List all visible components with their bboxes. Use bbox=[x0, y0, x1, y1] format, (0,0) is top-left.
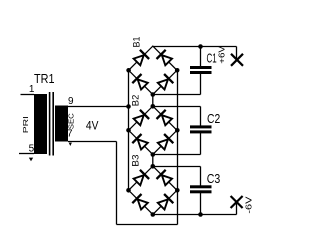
svg-text:9: 9 bbox=[68, 96, 74, 107]
diode B2 D-lower-right bbox=[158, 134, 174, 150]
diode B1 D-upper-left bbox=[134, 50, 150, 66]
diode B2 D-lower-left bbox=[132, 134, 148, 150]
wire B1- horizontal bbox=[153, 94, 201, 96]
TR1 pin 1 stub wire bbox=[21, 94, 35, 96]
pin 5 arrow marker bbox=[29, 158, 33, 162]
diode B3 D-lower-left bbox=[132, 194, 148, 210]
bridge rectifier B2 body bbox=[129, 106, 177, 154]
svg-text:B3: B3 bbox=[131, 155, 141, 167]
wire B2+ horizontal bbox=[153, 106, 201, 108]
svg-text:C1: C1 bbox=[207, 51, 217, 65]
capacitor C3 bbox=[190, 185, 212, 193]
left AC bus vertical bbox=[128, 70, 130, 190]
junction B3 minus node bbox=[151, 212, 156, 217]
wire -6V terminal rise bbox=[236, 202, 238, 215]
wire B2- horizontal bbox=[153, 154, 201, 156]
svg-text:C2: C2 bbox=[207, 112, 220, 126]
TR1 pin 5 stub wire bbox=[19, 153, 34, 155]
wire pin 9 to left AC bus bbox=[68, 106, 129, 108]
transformer TR1 secondary winding bbox=[55, 106, 68, 142]
svg-text:SEC: SEC bbox=[67, 113, 76, 129]
svg-text:+6V: +6V bbox=[217, 46, 227, 64]
svg-text:TR1: TR1 bbox=[34, 72, 55, 86]
diode B3 D-upper-right bbox=[157, 170, 173, 186]
wire bottom AC return bbox=[117, 224, 178, 226]
junction B1 left AC node bbox=[126, 68, 131, 73]
C3 bottom lead bbox=[200, 193, 202, 215]
transformer core line left bbox=[49, 92, 51, 156]
diode B3 D-lower-right bbox=[158, 194, 174, 210]
capacitor C1 bbox=[190, 66, 212, 74]
C2 top lead bbox=[200, 107, 202, 126]
junction pin 9 bus node bbox=[126, 104, 131, 109]
wire +6V terminal drop bbox=[236, 47, 238, 60]
svg-text:4V: 4V bbox=[86, 119, 99, 133]
diode B1 D-upper-right bbox=[157, 50, 173, 66]
junction B2 plus node bbox=[151, 104, 156, 109]
wire B2- to B3+ link bbox=[152, 155, 154, 167]
junction B3 plus node bbox=[151, 164, 156, 169]
junction B2 minus node bbox=[151, 152, 156, 157]
diode B1 D-lower-left bbox=[132, 74, 148, 90]
junction B3 left AC node bbox=[126, 188, 131, 193]
capacitor C2 bbox=[190, 125, 212, 133]
junction C3 bottom node bbox=[198, 212, 203, 217]
svg-text:1: 1 bbox=[29, 84, 35, 95]
transformer TR1 primary winding bbox=[34, 94, 47, 154]
C2 bottom lead bbox=[200, 133, 202, 155]
wire B3+ horizontal bbox=[153, 166, 201, 168]
pin 7 arrow marker bbox=[69, 143, 72, 146]
svg-text:B1: B1 bbox=[132, 37, 142, 48]
svg-text:B2: B2 bbox=[130, 95, 140, 107]
junction C1 top node bbox=[198, 44, 203, 49]
svg-text:PRI: PRI bbox=[21, 116, 30, 133]
C3 top lead bbox=[200, 167, 202, 186]
svg-text:C3: C3 bbox=[207, 172, 221, 186]
right AC bus vertical bbox=[177, 70, 179, 224]
bridge rectifier B1 body bbox=[129, 46, 177, 94]
wire B3- to -6V terminal bbox=[153, 214, 237, 216]
junction B1 minus node bbox=[151, 92, 156, 97]
svg-text:7: 7 bbox=[67, 129, 73, 140]
wire B1- to B2+ link bbox=[152, 95, 154, 107]
svg-text:-6V: -6V bbox=[243, 196, 253, 214]
wire B1+ to +6V terminal bbox=[153, 46, 237, 48]
diode B2 D-upper-left bbox=[134, 110, 150, 126]
wire pin 7 horizontal bbox=[68, 141, 117, 143]
diode B1 D-lower-right bbox=[158, 74, 174, 90]
diode B3 D-upper-left bbox=[134, 170, 150, 186]
junction B3 right AC node bbox=[175, 188, 180, 193]
terminal X +6V bbox=[231, 54, 243, 66]
C1 top lead bbox=[200, 47, 202, 67]
junction B2 left AC node bbox=[126, 128, 131, 133]
diode B2 D-upper-right bbox=[157, 110, 173, 126]
bridge rectifier B3 body bbox=[129, 166, 177, 214]
svg-text:5: 5 bbox=[29, 143, 35, 154]
C1 bottom lead bbox=[200, 74, 202, 95]
junction B2 right AC node bbox=[175, 128, 180, 133]
terminal X -6V bbox=[231, 196, 243, 208]
junction B1 right AC node bbox=[175, 68, 180, 73]
wire pin 7 vertical drop bbox=[116, 142, 118, 225]
transformer core line right bbox=[52, 92, 54, 156]
